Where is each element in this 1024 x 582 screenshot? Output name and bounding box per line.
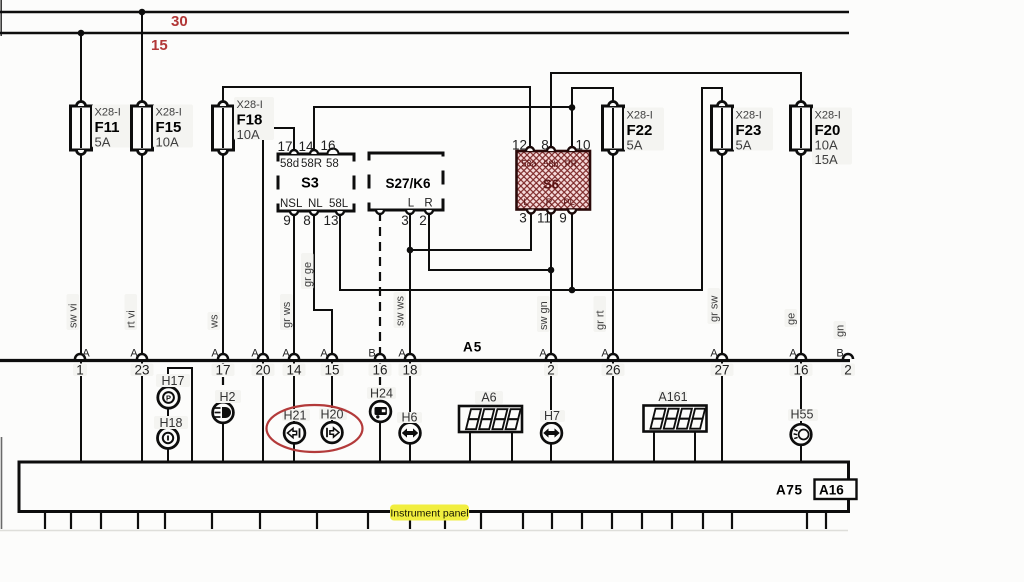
wire F18 to S6 pin 12 horizontal	[222, 86, 530, 88]
wire F22 bottom to bus terminal 26	[612, 150, 614, 360]
svg-text:A161: A161	[658, 390, 687, 404]
label H18	[154, 416, 188, 429]
wire H6 to instrument panel	[409, 443, 411, 462]
svg-text:16: 16	[372, 363, 387, 378]
svg-text:12: 12	[512, 138, 527, 153]
wire A6 left leg	[469, 432, 471, 462]
svg-text:8: 8	[541, 138, 549, 153]
svg-text:sw ws: sw ws	[395, 296, 407, 326]
wire F22 top stub	[612, 87, 614, 107]
svg-text:15: 15	[151, 37, 168, 54]
svg-text:10: 10	[575, 138, 590, 153]
svg-text:R: R	[546, 197, 553, 208]
S6 pin 12 bump	[526, 147, 534, 151]
S27 left pin bump	[376, 210, 384, 214]
label H20	[319, 408, 347, 420]
svg-text:X28-I: X28-I	[736, 110, 762, 122]
wire node to S6 pin 3 horizontal	[410, 249, 531, 251]
svg-text:L: L	[408, 198, 415, 210]
svg-text:5A: 5A	[627, 138, 643, 153]
S6 pin 10 bump	[568, 147, 576, 151]
red annotation ellipse around H21 H20	[267, 405, 363, 452]
wire H21 to instrument panel	[293, 443, 295, 462]
wire bus 16 dashed to H24	[379, 363, 381, 402]
svg-text:A: A	[710, 348, 718, 360]
svg-text:A16: A16	[819, 483, 844, 498]
svg-text:A5: A5	[463, 340, 482, 355]
svg-text:A: A	[130, 348, 138, 360]
svg-text:ge: ge	[786, 313, 798, 325]
wire label gr ws	[280, 294, 293, 330]
fuse F11 5A	[71, 106, 92, 150]
svg-text:11: 11	[537, 211, 551, 226]
label H2	[215, 390, 241, 403]
S6 pin 9 bump	[568, 210, 576, 214]
svg-text:17: 17	[215, 363, 230, 378]
bus terminal 18 number	[399, 364, 422, 377]
svg-text:2: 2	[547, 363, 555, 378]
bus terminal 2 (A) bump	[546, 354, 556, 359]
wire H17 loop top-left vertical	[167, 367, 169, 388]
svg-text:H7: H7	[544, 409, 560, 423]
wire label sw vi	[67, 294, 80, 330]
indicator H17	[158, 387, 179, 408]
wire bus 27 to instrument panel	[721, 362, 723, 462]
yellow highlighted label Instrument panel	[390, 505, 469, 521]
indicator H18	[158, 428, 179, 449]
wire bus 16 right to H55	[800, 362, 802, 425]
junction S3 pin14 / S6 pin10 / F22 node	[569, 104, 576, 111]
bus terminal 2 number	[544, 364, 558, 377]
bus terminal 1 number	[73, 364, 87, 377]
junction rail 30 / F15	[139, 9, 146, 16]
svg-text:5A: 5A	[95, 135, 111, 150]
bus terminal 1 (A) bump	[75, 354, 85, 359]
wire to bus terminal 20	[262, 127, 264, 360]
svg-text:X28-I: X28-I	[627, 110, 653, 122]
S6 pin 8 bump	[547, 147, 555, 151]
wire H18 to instrument panel	[167, 448, 169, 462]
svg-text:gr sw: gr sw	[709, 296, 721, 322]
wire H55 to instrument panel	[800, 444, 802, 462]
wire F18 bottom to bus terminal 17	[222, 150, 224, 360]
wire S6 pin 9 vertical	[571, 211, 573, 292]
scan left edge mark top	[0, 0, 2, 36]
svg-text:5A: 5A	[736, 138, 752, 153]
bus terminal 15 number	[321, 364, 344, 377]
svg-text:3: 3	[401, 213, 409, 228]
S6 pin 3 bump	[527, 210, 535, 214]
svg-text:sw gn: sw gn	[538, 301, 550, 330]
svg-text:30: 30	[171, 13, 188, 30]
scan left edge mark bottom	[1, 437, 3, 529]
svg-text:A: A	[398, 348, 406, 360]
svg-text:A: A	[601, 348, 609, 360]
power rail 15	[0, 32, 849, 35]
wire node to F22 vertical	[571, 87, 573, 151]
wire bus 1 to instrument panel	[80, 362, 82, 462]
svg-text:S6: S6	[543, 177, 559, 192]
svg-text:A: A	[251, 348, 259, 360]
svg-text:58a: 58a	[521, 159, 536, 169]
svg-text:23: 23	[134, 363, 149, 378]
svg-text:9: 9	[283, 213, 291, 228]
wire bus 17 dashed to H2	[222, 363, 224, 402]
svg-text:F18: F18	[237, 112, 263, 129]
S3 pin 9 bump	[290, 211, 298, 215]
svg-text:H2: H2	[220, 390, 236, 404]
bus terminal 27 (A) bump	[717, 354, 727, 359]
wire S6 pin 8 vertical	[550, 72, 552, 151]
label box A16	[815, 480, 857, 500]
svg-text:NL: NL	[308, 198, 323, 210]
svg-text:58: 58	[326, 158, 339, 170]
instrument panel box A75	[19, 462, 849, 512]
wire label rt vi	[125, 294, 138, 330]
svg-text:gr ws: gr ws	[281, 301, 293, 328]
svg-text:A: A	[320, 348, 328, 360]
S27 pin 3 bump	[406, 210, 414, 214]
indicator H24 trailer	[370, 401, 391, 422]
label H17	[156, 374, 190, 387]
wire S3 pin 14 to node horizontal	[314, 106, 572, 108]
wire S3 pin 17 vertical	[293, 127, 295, 154]
svg-text:gr rt: gr rt	[595, 310, 607, 330]
wire A6 right leg	[511, 432, 513, 462]
bus terminal 20 number	[252, 364, 275, 377]
wire S6 pin 8 to F20 horizontal	[550, 72, 801, 74]
svg-text:P: P	[166, 393, 171, 402]
svg-text:10A: 10A	[156, 135, 179, 150]
wire S27 pin 2 vertical	[428, 212, 430, 270]
svg-text:18: 18	[402, 363, 417, 378]
svg-text:F20: F20	[815, 122, 841, 139]
S3 pin 17 bump	[290, 150, 298, 154]
wire S6 pin 11 to bus terminal 2	[550, 211, 552, 360]
label H55	[788, 409, 818, 421]
switch S3 box	[277, 153, 356, 213]
fuse F20 10A 15A	[791, 106, 812, 150]
svg-text:L: L	[523, 197, 528, 208]
fuse F23 5A	[712, 106, 733, 150]
wire F23 top horizontal	[701, 87, 722, 89]
indicator H7 double arrow	[541, 423, 562, 444]
wire label gr sw	[708, 288, 721, 324]
S3 pin 14 bump	[310, 150, 318, 154]
label H24	[367, 387, 396, 399]
svg-text:58R: 58R	[301, 158, 322, 170]
bus terminal 14 (A) bump	[289, 354, 299, 359]
fuse F18 10A	[213, 106, 234, 150]
S3 pin 16 open circle	[328, 149, 339, 155]
wire A161 left leg	[653, 432, 655, 462]
bus terminal 26 number	[602, 364, 625, 377]
display A6	[459, 406, 522, 432]
junction S27 pin3 / S6 pin3 node	[407, 247, 414, 254]
svg-text:rt vi: rt vi	[126, 310, 138, 328]
S6 pin 11 bump	[547, 210, 555, 214]
svg-text:16: 16	[793, 363, 808, 378]
wire S27 left pin dashed to bus terminal 16	[379, 212, 381, 360]
svg-text:PR: PR	[565, 159, 578, 169]
wire A161 right leg	[694, 432, 696, 462]
svg-text:A: A	[539, 348, 547, 360]
bus terminal 2 (B) bump	[843, 354, 853, 359]
svg-text:Instrument panel: Instrument panel	[390, 508, 468, 520]
svg-text:10A: 10A	[237, 127, 260, 142]
wire S3 pin 9 to bus terminal 14	[293, 212, 295, 360]
indicator H21 turn signal left	[284, 423, 305, 444]
svg-text:H55: H55	[791, 408, 814, 422]
wire F20 bottom to bus terminal 16	[800, 150, 802, 360]
label H7	[540, 410, 565, 422]
svg-text:X28-I: X28-I	[156, 107, 182, 119]
svg-text:13: 13	[323, 213, 338, 228]
bus terminal 27 number	[711, 364, 734, 377]
wire bus 18 to H6	[409, 362, 411, 423]
wire S3 pin 13 vertical	[339, 212, 341, 291]
wire H17 loop horizontal	[167, 367, 193, 369]
wire H24 to instrument panel	[379, 421, 381, 462]
svg-text:sw vi: sw vi	[68, 304, 80, 328]
S3 pin 13 bump	[336, 211, 344, 215]
fuse F15 10A	[132, 106, 153, 150]
wire S27 pin 2 to S6 pin 11 horizontal	[428, 269, 551, 271]
svg-text:14: 14	[286, 363, 302, 378]
wire F23 feed vertical	[701, 87, 703, 291]
wire H7 to instrument panel	[550, 443, 552, 462]
svg-text:2: 2	[419, 213, 427, 228]
svg-text:A6: A6	[481, 391, 496, 405]
S3 pin 8 bump	[310, 211, 318, 215]
bus terminal 26 (A) bump	[608, 354, 618, 359]
power rail 30	[0, 11, 849, 14]
wire label gn	[834, 321, 847, 339]
fuse F22 5A	[603, 106, 624, 150]
wire S3 pin 8 jog horizontal	[313, 309, 332, 311]
indicator H6 double arrow	[400, 423, 421, 444]
wire S3 pin 14 vertical	[313, 106, 315, 154]
svg-text:X28-I: X28-I	[95, 107, 121, 119]
svg-text:F22: F22	[627, 122, 653, 139]
wire F23 bottom to bus terminal 27	[721, 150, 723, 360]
svg-text:H21: H21	[284, 409, 307, 423]
S27 pin 2 bump	[425, 210, 433, 214]
svg-text:A: A	[211, 348, 219, 360]
svg-text:X28-I: X28-I	[237, 99, 263, 111]
svg-text:58d: 58d	[280, 158, 299, 170]
svg-text:A: A	[789, 348, 797, 360]
wire label sw ws	[394, 292, 407, 328]
faint scan line bottom	[0, 530, 848, 532]
svg-text:F23: F23	[736, 122, 762, 139]
wire F18 top stub	[222, 86, 224, 107]
svg-text:F11: F11	[95, 119, 120, 136]
svg-text:B: B	[836, 348, 843, 360]
svg-text:B: B	[368, 348, 375, 360]
wire H2 to instrument panel	[222, 422, 224, 462]
wire F11 top from rail 15	[80, 33, 82, 107]
wire bus 15 to H20	[331, 362, 333, 422]
bus terminal 15 (A) bump	[327, 354, 337, 359]
svg-text:27: 27	[714, 363, 729, 378]
svg-text:58b: 58b	[543, 159, 558, 169]
svg-text:3: 3	[519, 211, 527, 226]
wire F20 top stub	[800, 72, 802, 107]
svg-text:S27/K6: S27/K6	[385, 176, 431, 191]
svg-text:17: 17	[277, 139, 292, 154]
wire S27 pin 3 to bus terminal 18	[409, 212, 411, 360]
svg-text:S3: S3	[301, 176, 319, 192]
indicator H55 rear fog	[791, 424, 812, 445]
bus terminal 16 number	[369, 364, 392, 377]
wire bus 26 to instrument panel	[612, 362, 614, 462]
wire H17 loop right vertical to instrument panel	[191, 367, 193, 462]
wire F11 bottom to bus terminal 1	[80, 150, 82, 360]
svg-text:NSL: NSL	[280, 198, 303, 210]
bus terminal 14 number	[283, 364, 306, 377]
wire F23 top stub	[721, 87, 723, 107]
bus terminal 18 (A) bump	[405, 354, 415, 359]
svg-text:H17: H17	[162, 374, 185, 388]
svg-text:16: 16	[320, 138, 335, 153]
junction S3 pin13 / S6 pin9 node	[569, 287, 576, 294]
wire F15 top from rail 30	[141, 12, 143, 107]
bus terminal 16 (A) bump	[796, 354, 806, 359]
wire bus 14 to H21	[293, 362, 295, 423]
svg-text:26: 26	[605, 363, 620, 378]
bus terminal 16 number	[790, 364, 813, 377]
indicator H2 high beam	[213, 402, 234, 423]
svg-text:R: R	[424, 198, 432, 210]
wire jog to bus terminal 15	[331, 309, 333, 360]
wire label sw gn	[537, 296, 550, 332]
bus terminal 17 number	[212, 364, 235, 377]
indicator H20 turn signal right	[322, 422, 343, 443]
wire label gr ge	[301, 253, 314, 289]
display A161	[644, 406, 707, 432]
svg-text:A: A	[82, 348, 90, 360]
wire label ws	[208, 312, 221, 330]
wire S3 pin 17 jog horizontal	[263, 127, 295, 129]
wire S3 pin 8 vertical	[313, 212, 315, 310]
svg-text:20: 20	[255, 363, 270, 378]
bus terminal 16 (B) bump	[375, 354, 385, 359]
bus terminal 20 (A) bump	[258, 354, 268, 359]
svg-text:A75: A75	[776, 483, 803, 498]
bus terminal 23 number	[131, 364, 154, 377]
svg-text:2: 2	[844, 363, 852, 378]
instrument panel connector ticks	[45, 513, 826, 529]
svg-text:gr ge: gr ge	[302, 262, 314, 287]
svg-text:15: 15	[324, 363, 339, 378]
wire label gr rt	[594, 296, 607, 332]
svg-text:F15: F15	[156, 119, 182, 136]
svg-text:10A: 10A	[815, 138, 838, 153]
svg-text:H6: H6	[402, 411, 418, 425]
wire S6 pin 12 vertical	[529, 86, 531, 151]
bus terminal 17 (A) bump	[218, 354, 228, 359]
wire S3 pin 13 feed horizontal	[340, 289, 703, 291]
svg-text:A: A	[282, 348, 290, 360]
svg-text:PL: PL	[563, 197, 575, 208]
wire bus 23 to instrument panel	[141, 362, 143, 462]
svg-text:14: 14	[298, 139, 314, 154]
bus terminal 2 number	[841, 364, 855, 377]
svg-text:gn: gn	[835, 325, 847, 337]
svg-text:15A: 15A	[815, 152, 838, 167]
svg-text:X28-I: X28-I	[815, 110, 841, 122]
svg-text:8: 8	[303, 213, 311, 228]
svg-text:H24: H24	[370, 387, 393, 401]
junction rail 15 / F11	[78, 30, 85, 37]
switch S6 hatched box	[517, 151, 591, 210]
junction S27 pin2 / S6 pin11 node	[548, 267, 555, 274]
svg-text:H18: H18	[160, 416, 183, 430]
wire label ge	[785, 309, 798, 327]
wire S6 pin 3 vertical	[530, 210, 532, 251]
svg-text:ws: ws	[209, 314, 221, 329]
wire bus 2 to H7	[550, 362, 552, 423]
wire H17 to H18	[167, 407, 169, 428]
svg-text:9: 9	[559, 211, 567, 226]
wire F15 bottom to bus terminal 23	[141, 150, 143, 360]
wire node to F22 horizontal	[571, 87, 613, 89]
label H21	[282, 409, 310, 421]
bus line A5	[0, 359, 850, 362]
label H6	[397, 412, 422, 423]
svg-text:58L: 58L	[329, 198, 349, 210]
svg-text:1: 1	[76, 363, 84, 378]
bus terminal 23 (A) bump	[137, 354, 147, 359]
wire bus 20 to instrument panel	[262, 362, 264, 462]
switch S27/K6 box	[368, 152, 445, 212]
